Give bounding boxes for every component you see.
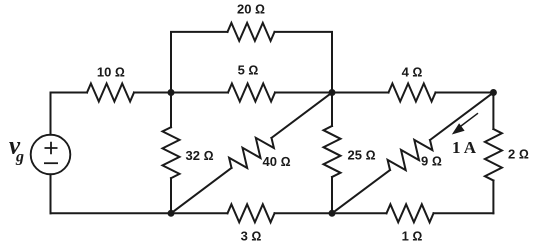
resistor 10 ohm bbox=[87, 84, 134, 102]
wire left bottom segment bbox=[50, 174, 52, 213]
voltage source vg circle bbox=[31, 135, 71, 175]
wire bottom rail left bbox=[51, 212, 228, 214]
svg-text:3 Ω: 3 Ω bbox=[241, 229, 262, 244]
svg-text:20 Ω: 20 Ω bbox=[237, 2, 265, 17]
wire 40 ohm lower lead bbox=[171, 168, 232, 213]
current arrow 1 A shaft bbox=[460, 113, 479, 127]
svg-text:1 A: 1 A bbox=[452, 138, 477, 157]
resistor 32 ohm bbox=[163, 127, 180, 178]
wire bottom rail right bbox=[434, 212, 494, 214]
wire 9 ohm upper lead bbox=[430, 93, 493, 141]
wire between 10 ohm and node A bbox=[134, 92, 228, 94]
wire top loop right riser bbox=[275, 32, 333, 93]
svg-text:32 Ω: 32 Ω bbox=[186, 148, 214, 163]
wire middle rail left lead bbox=[51, 92, 88, 94]
wire 2 ohm top lead bbox=[492, 93, 494, 130]
wire 32 ohm bottom lead bbox=[170, 178, 172, 213]
resistor 25 ohm bbox=[324, 126, 341, 177]
node B dot bbox=[329, 89, 336, 96]
resistor 2 ohm bbox=[485, 129, 502, 181]
node E dot bbox=[329, 210, 336, 217]
resistor 9 ohm bbox=[388, 140, 433, 170]
svg-text:10 Ω: 10 Ω bbox=[97, 65, 125, 80]
resistor 4 ohm bbox=[389, 84, 436, 102]
wire between 4 ohm and node C bbox=[436, 92, 494, 94]
svg-text:9 Ω: 9 Ω bbox=[421, 154, 442, 169]
svg-text:40 Ω: 40 Ω bbox=[263, 154, 291, 169]
svg-text:5 Ω: 5 Ω bbox=[238, 63, 259, 78]
svg-text:2 Ω: 2 Ω bbox=[508, 147, 529, 162]
resistor 5 ohm bbox=[228, 84, 275, 102]
voltage source minus sign bbox=[44, 162, 58, 164]
resistor 3 ohm bbox=[228, 204, 275, 222]
wire between 5 ohm and node B bbox=[275, 92, 389, 94]
resistor 40 ohm bbox=[229, 138, 274, 168]
wire 40 ohm upper lead bbox=[272, 93, 333, 138]
wire 2 ohm bottom lead bbox=[492, 181, 494, 214]
resistor 1 ohm bbox=[387, 204, 434, 222]
voltage source plus sign bbox=[45, 142, 58, 155]
node A dot bbox=[168, 89, 175, 96]
node C dot bbox=[490, 89, 497, 96]
node D dot bbox=[168, 210, 175, 217]
wire 32 ohm top lead bbox=[170, 93, 172, 128]
resistor 20 ohm bbox=[228, 23, 275, 41]
wire 25 ohm bottom lead bbox=[331, 177, 333, 213]
svg-text:25 Ω: 25 Ω bbox=[348, 148, 376, 163]
current arrow 1 A head bbox=[452, 123, 465, 134]
wire 9 ohm lower lead bbox=[332, 170, 390, 213]
svg-text:g: g bbox=[15, 149, 24, 166]
wire 25 ohm top lead bbox=[331, 93, 333, 127]
wire bottom rail middle bbox=[275, 212, 387, 214]
svg-text:1 Ω: 1 Ω bbox=[402, 229, 423, 244]
wire left top segment bbox=[50, 93, 52, 135]
wire top loop left riser bbox=[171, 32, 228, 93]
svg-text:4 Ω: 4 Ω bbox=[402, 64, 423, 79]
